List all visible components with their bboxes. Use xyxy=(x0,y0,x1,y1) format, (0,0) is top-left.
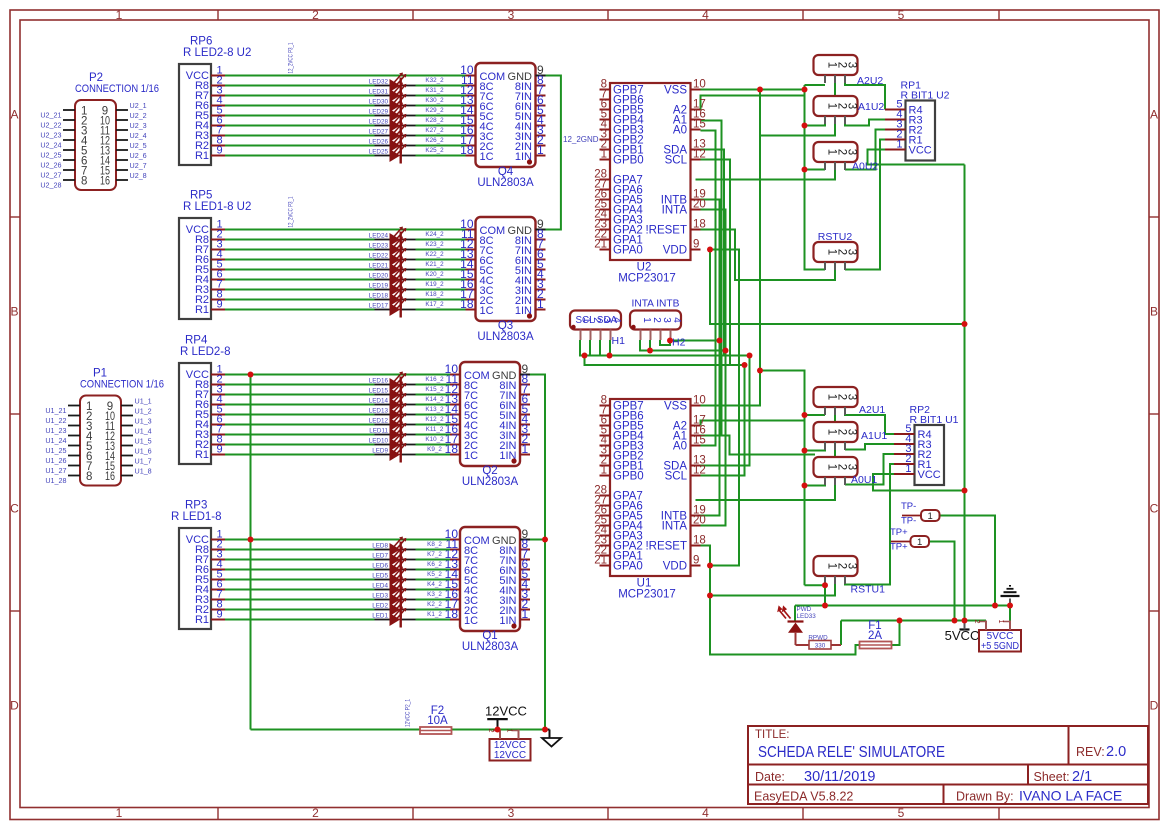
resistor network A0U2 xyxy=(814,142,879,173)
svg-text:MCP23017: MCP23017 xyxy=(618,589,676,601)
svg-text:LED27: LED27 xyxy=(369,129,389,136)
junction xyxy=(248,372,254,378)
ground symbol xyxy=(542,738,561,747)
wire U1 VDD down xyxy=(710,566,860,655)
junction xyxy=(707,593,713,599)
svg-text:12: 12 xyxy=(693,149,706,161)
svg-text:D: D xyxy=(1150,699,1159,713)
wire U2 SCL trunk xyxy=(701,160,731,366)
LED LED33 power indicator xyxy=(777,605,816,645)
svg-text:4: 4 xyxy=(702,8,709,22)
wire VSS branch to U1 networks xyxy=(760,371,805,586)
header H2 xyxy=(630,299,686,349)
junction xyxy=(542,537,548,543)
svg-text:IVANO LA FACE: IVANO LA FACE xyxy=(1019,788,1122,804)
svg-text:TP-: TP- xyxy=(901,501,916,512)
svg-text:1: 1 xyxy=(928,511,933,522)
wire U1 SDA from H line xyxy=(701,356,750,466)
ULN2803A driver Q4 xyxy=(460,63,545,189)
svg-text:R LED2-8: R LED2-8 xyxy=(180,346,231,358)
wire A0U1 pin3 to RP2 pin3 xyxy=(845,454,894,485)
svg-text:20: 20 xyxy=(693,199,706,211)
wire RP to LED xyxy=(225,619,375,621)
wire U1 SCL from H line xyxy=(701,365,745,476)
wire RP to LED xyxy=(225,145,375,147)
svg-text:K24_2: K24_2 xyxy=(425,231,444,238)
svg-text:12_2VCC P3_1: 12_2VCC P3_1 xyxy=(288,42,295,73)
wire RP VCC to COM xyxy=(225,229,466,231)
LED LED14 xyxy=(369,392,444,413)
wire RSTU2 pin3 to RP1 pin2 xyxy=(845,140,885,271)
svg-text:2: 2 xyxy=(973,619,982,623)
svg-text:A: A xyxy=(10,108,18,122)
svg-text:TITLE:: TITLE: xyxy=(755,729,790,741)
junction xyxy=(992,603,998,609)
svg-text:TP+: TP+ xyxy=(890,527,908,538)
svg-text:U1_8: U1_8 xyxy=(135,467,152,476)
svg-text:1: 1 xyxy=(896,139,902,151)
wire U2 A2 xyxy=(701,96,805,111)
svg-text:LED9: LED9 xyxy=(372,448,388,455)
svg-text:SCHEDA RELE' SIMULATORE: SCHEDA RELE' SIMULATORE xyxy=(758,744,945,761)
svg-text:MCP23017: MCP23017 xyxy=(618,273,676,285)
svg-text:R LED1-8: R LED1-8 xyxy=(171,511,222,523)
svg-text:LED10: LED10 xyxy=(369,438,389,445)
svg-text:K17_2: K17_2 xyxy=(425,301,444,308)
svg-text:1: 1 xyxy=(522,607,529,621)
wire U2 !RESET to RSTU2 xyxy=(701,230,836,281)
wire RP to LED xyxy=(225,105,375,107)
svg-text:A2U2: A2U2 xyxy=(857,75,883,87)
svg-text:1C: 1C xyxy=(480,151,494,163)
wire RP2 VCC xyxy=(873,474,965,491)
svg-text:1: 1 xyxy=(537,297,544,311)
wire LED to driver xyxy=(416,444,451,446)
svg-text:U2_27: U2_27 xyxy=(40,171,61,180)
junction xyxy=(723,348,729,354)
svg-text:LED15: LED15 xyxy=(369,388,389,395)
wire H1 line 2 xyxy=(585,356,745,366)
ULN2803A driver Q1 xyxy=(445,527,530,653)
wire LED to driver xyxy=(416,619,451,621)
LED LED8 xyxy=(372,537,442,558)
svg-text:K3_2: K3_2 xyxy=(427,591,442,598)
svg-text:RP6: RP6 xyxy=(190,36,212,48)
LED LED24 xyxy=(369,227,444,248)
test point TP+ xyxy=(890,527,929,553)
svg-text:LED7: LED7 xyxy=(372,553,388,560)
wire LED to driver xyxy=(416,434,451,436)
svg-text:VSS: VSS xyxy=(664,85,687,97)
svg-text:VCC: VCC xyxy=(909,145,932,157)
svg-text:ULN2803A: ULN2803A xyxy=(462,476,519,488)
wire RP to LED xyxy=(225,579,375,581)
svg-text:LED23: LED23 xyxy=(369,243,389,250)
wire 5V vertical right xyxy=(964,165,966,621)
wire H2 pin2 line xyxy=(640,340,726,351)
svg-text:9: 9 xyxy=(217,444,223,456)
svg-text:H2: H2 xyxy=(672,337,686,349)
svg-text:2/1: 2/1 xyxy=(1072,769,1092,785)
svg-text:LED21: LED21 xyxy=(369,263,389,270)
svg-text:B: B xyxy=(1150,305,1158,319)
power symbol 12VCC xyxy=(485,704,527,720)
svg-text:10A: 10A xyxy=(427,715,448,727)
wire RP to LED xyxy=(225,569,375,571)
svg-text:A0: A0 xyxy=(673,441,687,453)
LED LED21 xyxy=(369,257,444,278)
resistor pack RP1 xyxy=(885,80,950,161)
svg-text:K14_2: K14_2 xyxy=(425,396,444,403)
junction xyxy=(667,338,673,344)
svg-text:LED22: LED22 xyxy=(369,253,389,260)
svg-text:3: 3 xyxy=(661,317,672,323)
resistor RPWD 390 xyxy=(796,635,842,650)
LED LED25 xyxy=(369,143,444,164)
wire RP to LED xyxy=(225,299,375,301)
wire RP to LED xyxy=(225,444,375,446)
svg-text:3: 3 xyxy=(846,563,858,569)
wire LED to driver xyxy=(416,105,466,107)
svg-text:C: C xyxy=(1150,502,1159,516)
svg-text:VDD: VDD xyxy=(663,561,687,573)
svg-text:REV:: REV: xyxy=(1076,745,1105,759)
wire LED to driver xyxy=(416,289,466,291)
junction xyxy=(802,167,808,173)
svg-text:K18_2: K18_2 xyxy=(425,291,444,298)
wire LED to driver xyxy=(416,299,466,301)
junction xyxy=(742,362,748,368)
wire RP to LED xyxy=(225,95,375,97)
LED LED20 xyxy=(369,267,444,288)
junction xyxy=(802,483,808,489)
svg-text:A0: A0 xyxy=(673,125,687,137)
svg-text:3: 3 xyxy=(846,249,858,255)
wire A1U1 pin1 xyxy=(805,449,826,452)
junction xyxy=(802,87,808,93)
svg-text:CONNECTION 1/16: CONNECTION 1/16 xyxy=(80,379,164,391)
svg-text:LED16: LED16 xyxy=(369,378,389,385)
svg-text:12_2GND: 12_2GND xyxy=(563,135,599,144)
svg-text:U1_28: U1_28 xyxy=(45,476,66,485)
wire H2 pin4 line xyxy=(670,340,720,342)
resistor pack RP2 xyxy=(894,404,959,485)
junction xyxy=(962,618,968,624)
junction xyxy=(707,563,713,569)
svg-text:18: 18 xyxy=(693,535,706,547)
svg-text:A0U1: A0U1 xyxy=(851,474,877,486)
LED LED31 xyxy=(369,83,444,104)
LED LED12 xyxy=(369,412,444,433)
wire A-network chain U2 xyxy=(805,85,826,270)
svg-text:K13_2: K13_2 xyxy=(425,406,444,413)
svg-text:LED2: LED2 xyxy=(372,603,388,610)
svg-text:U2_5: U2_5 xyxy=(130,141,147,150)
svg-text:K20_2: K20_2 xyxy=(425,271,444,278)
svg-text:3: 3 xyxy=(846,464,858,470)
svg-text:INTA INTB: INTA INTB xyxy=(632,299,680,310)
resistor network A0U1 xyxy=(814,457,878,486)
svg-text:RP5: RP5 xyxy=(190,190,212,202)
wire RP to LED xyxy=(225,599,375,601)
wire U1 !RESET to VDD xyxy=(701,546,711,566)
wire LED to driver xyxy=(416,414,451,416)
wire TP- to gnd line xyxy=(940,516,996,606)
wire A0U2 pin2 xyxy=(696,170,836,180)
wire RP to LED xyxy=(225,404,375,406)
svg-text:TP-: TP- xyxy=(901,516,916,527)
svg-text:A2U1: A2U1 xyxy=(859,404,885,416)
LED LED2 xyxy=(372,597,442,618)
wire RP1 VCC xyxy=(868,150,965,165)
svg-text:U2_6: U2_6 xyxy=(130,151,147,160)
svg-text:SCL SDA: SCL SDA xyxy=(576,315,618,326)
svg-text:U2_3: U2_3 xyxy=(130,121,147,130)
wire LED to driver xyxy=(416,394,451,396)
wire 12VCC bottom xyxy=(251,729,421,731)
wire VDD to 5V line xyxy=(710,250,965,325)
svg-text:K12_2: K12_2 xyxy=(425,416,444,423)
svg-text:10: 10 xyxy=(693,395,706,407)
svg-text:12_2VCC P3_1: 12_2VCC P3_1 xyxy=(288,196,295,227)
fuse F2 10A xyxy=(420,705,452,734)
wire A1U2 pin1 xyxy=(805,124,826,126)
svg-text:9: 9 xyxy=(217,145,223,157)
svg-text:K23_2: K23_2 xyxy=(425,241,444,248)
power symbol 5VCC xyxy=(960,628,970,630)
svg-text:LED12: LED12 xyxy=(369,418,389,425)
wire LED to driver xyxy=(416,259,466,261)
LED LED4 xyxy=(372,577,442,598)
svg-text:330: 330 xyxy=(815,643,826,650)
svg-text:U2_28: U2_28 xyxy=(40,181,61,190)
svg-text:30/11/2019: 30/11/2019 xyxy=(804,769,876,785)
wire LED to driver xyxy=(416,145,466,147)
svg-text:LED32: LED32 xyxy=(369,79,389,86)
svg-text:1: 1 xyxy=(997,619,1006,623)
wire LED to driver xyxy=(416,454,451,456)
svg-text:LED6: LED6 xyxy=(372,563,388,570)
power connector 5VCC xyxy=(973,619,1021,652)
wire A2U1 pin1 xyxy=(805,414,826,416)
wire A2U1 pin2 chain xyxy=(696,415,836,500)
svg-text:A1U2: A1U2 xyxy=(858,101,884,113)
LED LED17 xyxy=(369,297,444,318)
svg-text:K16_2: K16_2 xyxy=(425,376,444,383)
svg-text:3: 3 xyxy=(846,103,858,109)
svg-text:3: 3 xyxy=(508,8,515,22)
svg-text:CONNECTION 1/16: CONNECTION 1/16 xyxy=(75,83,159,95)
svg-text:K7_2: K7_2 xyxy=(427,551,442,558)
svg-text:LED4: LED4 xyxy=(372,583,388,590)
wire LED to driver xyxy=(416,569,451,571)
header H1 xyxy=(570,311,625,348)
wire U1 A2 xyxy=(701,421,805,426)
wire TP+ to 5V line xyxy=(930,542,955,621)
svg-text:U1_1: U1_1 xyxy=(135,397,152,406)
wire A2U2 pin2 chain xyxy=(760,83,835,136)
svg-text:1: 1 xyxy=(506,728,515,732)
svg-text:K32_2: K32_2 xyxy=(425,77,444,84)
wire RSTU1 pin2 xyxy=(710,584,835,596)
junction xyxy=(952,618,958,624)
svg-text:12VCC P2_1: 12VCC P2_1 xyxy=(405,699,412,727)
wire RP to LED xyxy=(225,155,375,157)
svg-text:4: 4 xyxy=(671,317,682,323)
wire RP to LED xyxy=(225,85,375,87)
wire A2U1 pin3 to RP2 pin5 xyxy=(845,413,894,434)
junction xyxy=(962,488,968,494)
resistor network A2U2 xyxy=(814,55,884,87)
svg-text:LED3: LED3 xyxy=(372,593,388,600)
svg-text:1C: 1C xyxy=(464,615,478,627)
svg-text:LED14: LED14 xyxy=(369,398,389,405)
junction xyxy=(802,123,808,129)
wire LED to driver xyxy=(416,589,451,591)
junction xyxy=(495,727,501,733)
svg-text:U2_8: U2_8 xyxy=(130,171,147,180)
svg-text:K9_2: K9_2 xyxy=(427,446,442,453)
svg-text:21: 21 xyxy=(594,239,607,251)
svg-text:U2_23: U2_23 xyxy=(40,131,61,140)
wire U2 SDA trunk xyxy=(701,150,725,356)
resistor network RSTU2 xyxy=(814,231,858,270)
connector P2 CONNECTION 1/16 xyxy=(63,72,159,190)
connector P1 CONNECTION 1/16 xyxy=(68,368,164,486)
LED LED5 xyxy=(372,567,442,588)
wire LED to driver xyxy=(416,609,451,611)
junction xyxy=(582,353,588,359)
svg-text:LED29: LED29 xyxy=(369,109,389,116)
wire LED to driver xyxy=(416,269,466,271)
svg-text:1: 1 xyxy=(116,8,123,22)
resistor network A1U1 xyxy=(814,422,888,450)
svg-text:K4_2: K4_2 xyxy=(427,581,442,588)
svg-text:9: 9 xyxy=(693,239,699,251)
wire LED to driver xyxy=(416,404,451,406)
svg-text:U1_27: U1_27 xyxy=(45,466,66,475)
svg-text:K10_2: K10_2 xyxy=(425,436,444,443)
wire RSTU1 pin3 to RP2 pin2 xyxy=(845,464,894,585)
svg-text:K11_2: K11_2 xyxy=(426,426,444,433)
junction xyxy=(897,618,903,624)
wire A2U2 pin3 to RP1 pin5 xyxy=(845,83,885,110)
resistor pack RP4 xyxy=(179,335,231,465)
MCP23017 U1 xyxy=(594,395,706,601)
svg-text:LED17: LED17 xyxy=(369,303,389,310)
wire A0U2 pin1 xyxy=(805,169,826,172)
svg-text:U1_3: U1_3 xyxy=(135,417,152,426)
wire LED to driver xyxy=(416,239,466,241)
svg-text:K19_2: K19_2 xyxy=(425,281,444,288)
svg-text:U1_6: U1_6 xyxy=(135,447,152,456)
svg-text:3: 3 xyxy=(846,394,858,400)
wire LED to driver xyxy=(416,309,466,311)
svg-text:R1: R1 xyxy=(195,304,209,316)
svg-text:1: 1 xyxy=(116,806,123,820)
svg-text:U2_4: U2_4 xyxy=(130,131,147,140)
wire VSS trunk to U1 xyxy=(701,90,761,406)
svg-text:K25_2: K25_2 xyxy=(425,147,444,154)
svg-text:U1_4: U1_4 xyxy=(135,427,152,436)
wire U2 INTA trunk xyxy=(701,210,726,526)
junction xyxy=(822,603,828,609)
svg-text:R1: R1 xyxy=(195,150,209,162)
svg-text:K5_2: K5_2 xyxy=(427,571,442,578)
svg-text:GPB0: GPB0 xyxy=(613,471,644,483)
svg-text:U1_22: U1_22 xyxy=(45,416,66,425)
junction xyxy=(962,321,968,327)
svg-text:U1_24: U1_24 xyxy=(45,436,66,445)
svg-text:LED30: LED30 xyxy=(369,99,389,106)
junction xyxy=(822,582,828,588)
svg-text:15: 15 xyxy=(693,435,706,447)
junction xyxy=(647,348,653,354)
LED LED13 xyxy=(369,402,444,423)
svg-text:K29_2: K29_2 xyxy=(425,107,444,114)
wire 5V line bottom xyxy=(841,620,986,622)
wire LED to driver xyxy=(416,135,466,137)
wire RP to LED xyxy=(225,394,375,396)
wire RP to LED xyxy=(225,549,375,551)
svg-text:SCL: SCL xyxy=(665,471,688,483)
svg-text:K28_2: K28_2 xyxy=(425,117,444,124)
svg-text:TP+: TP+ xyxy=(890,542,908,553)
svg-text:18: 18 xyxy=(693,219,706,231)
LED LED28 xyxy=(369,113,444,134)
svg-text:C: C xyxy=(10,502,19,516)
svg-text:INTA: INTA xyxy=(662,521,688,533)
wire RP to LED xyxy=(225,135,375,137)
LED LED26 xyxy=(369,133,444,154)
wire LED to driver xyxy=(416,249,466,251)
wire 12_2GND Q4 to Q3 xyxy=(546,76,561,230)
junction xyxy=(802,412,808,418)
wire U2 VDD branch xyxy=(710,250,739,566)
resistor network A1U2 xyxy=(814,96,885,124)
svg-text:4: 4 xyxy=(702,806,709,820)
wire RP to LED xyxy=(225,589,375,591)
wire RP to LED xyxy=(225,434,375,436)
title block xyxy=(748,726,1148,804)
svg-text:VCC: VCC xyxy=(918,469,941,481)
svg-text:PWD: PWD xyxy=(797,606,812,613)
svg-text:12VCC: 12VCC xyxy=(485,704,527,719)
wire GND Q2 to Q1 to bottom xyxy=(529,375,545,730)
svg-text:U1_26: U1_26 xyxy=(45,456,66,465)
svg-text:LED11: LED11 xyxy=(369,428,388,435)
wire gnd line xyxy=(795,605,1010,607)
wire RP VCC to COM xyxy=(225,75,466,77)
svg-text:2: 2 xyxy=(312,8,319,22)
junction xyxy=(747,353,753,359)
svg-text:LED5: LED5 xyxy=(372,573,388,580)
svg-text:LED24: LED24 xyxy=(369,233,389,240)
svg-text:5: 5 xyxy=(898,806,905,820)
svg-text:Sheet:: Sheet: xyxy=(1034,770,1070,784)
svg-text:LED20: LED20 xyxy=(369,273,389,280)
svg-text:K15_2: K15_2 xyxy=(425,386,444,393)
wire LED to driver xyxy=(416,95,466,97)
power connector 12VCC xyxy=(487,728,531,761)
wire LED to driver xyxy=(416,85,466,87)
wire A0U2 pin3 to RP1 pin3 xyxy=(845,130,885,171)
svg-text:1: 1 xyxy=(917,537,922,548)
wire to 5VCC flag pin1 xyxy=(1009,606,1011,621)
svg-text:U2_7: U2_7 xyxy=(130,161,147,170)
svg-text:A: A xyxy=(1150,108,1158,122)
svg-text:20: 20 xyxy=(693,515,706,527)
